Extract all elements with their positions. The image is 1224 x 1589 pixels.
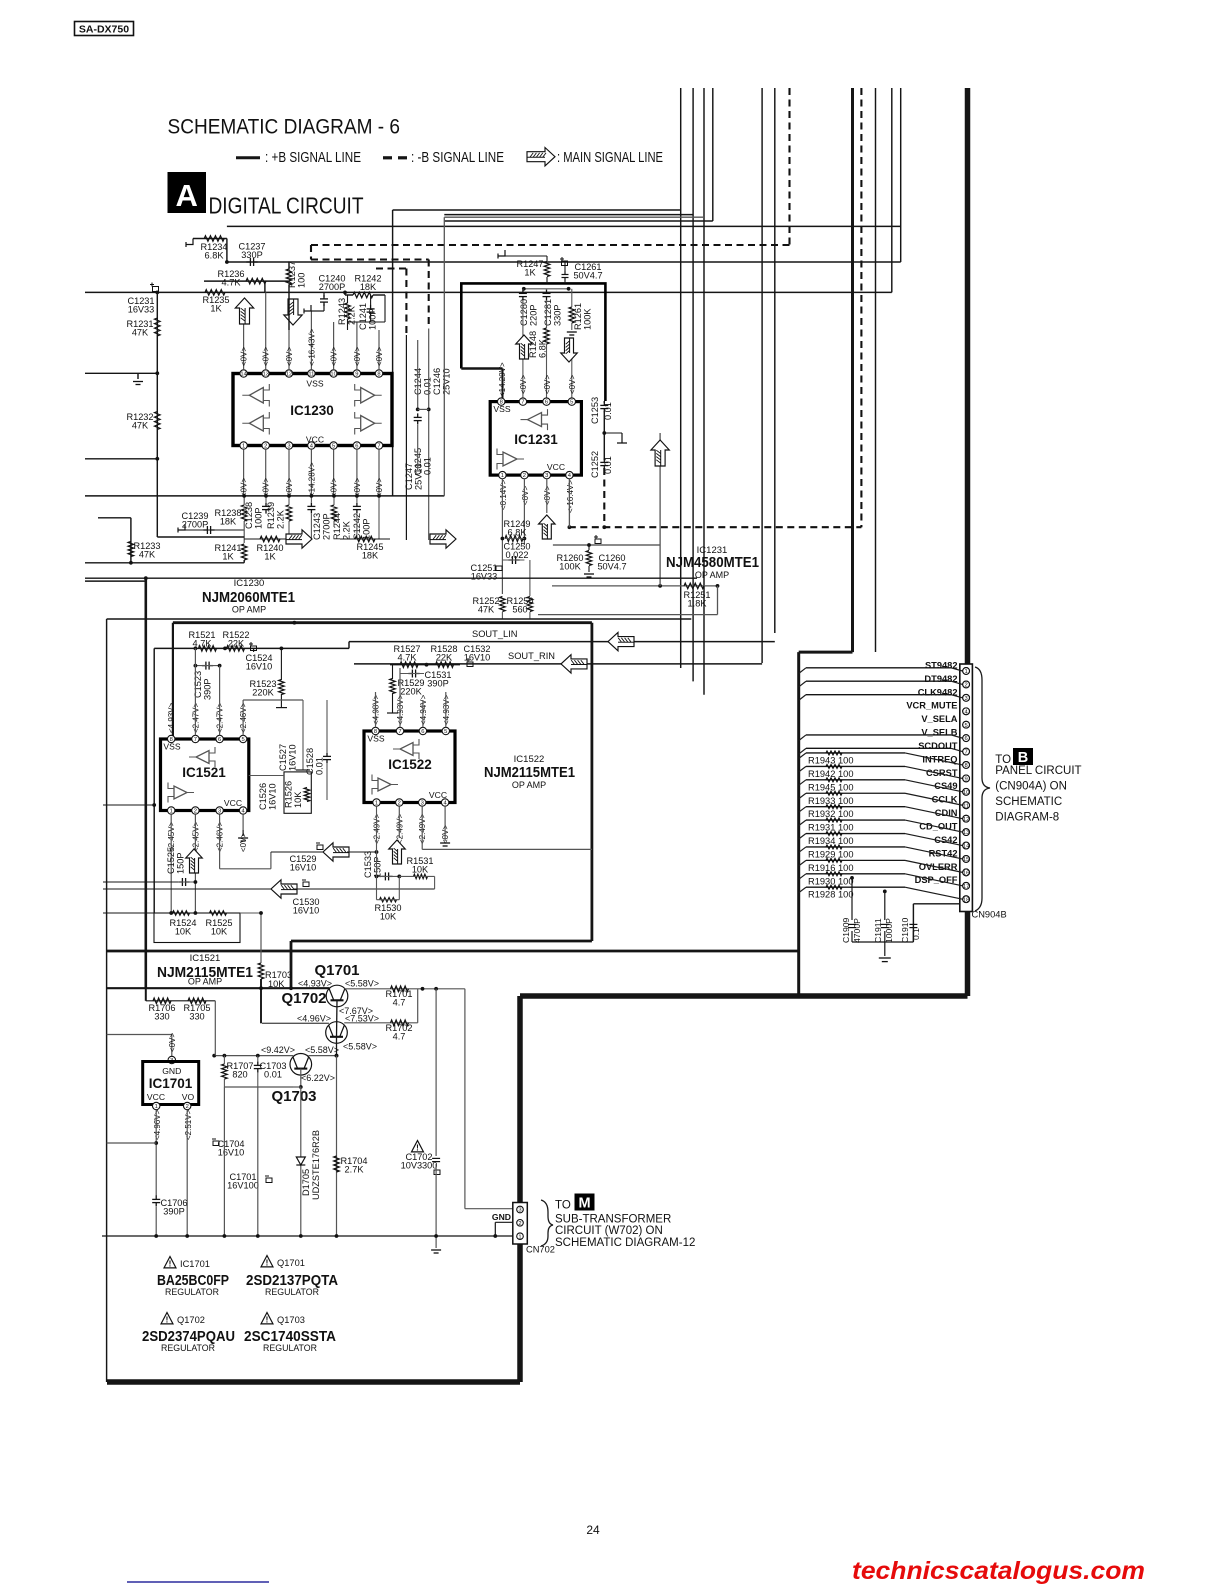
wire cap stub xyxy=(137,373,139,379)
pin 7 IC1230 xyxy=(375,442,382,449)
pin 14 IC1230 xyxy=(240,370,247,377)
op-amp IC1231 unit A xyxy=(528,413,542,427)
wire R1932 bus-jog xyxy=(799,807,806,813)
wire pin1 down chain xyxy=(376,806,378,900)
capacitor C1252 xyxy=(600,458,608,469)
wire bold drop right of label xyxy=(290,941,293,988)
wire R1243 leads b xyxy=(347,319,349,330)
resistor R1261 symbol xyxy=(569,307,575,323)
ground at R1234 xyxy=(186,239,193,248)
wire R1942 pin-jog xyxy=(905,766,963,778)
svg-text:REGULATOR: REGULATOR xyxy=(165,1287,219,1297)
resistor R1245 xyxy=(355,536,375,542)
wire caps cols c xyxy=(912,931,914,942)
capacitor C1529 polarity mark xyxy=(316,843,323,850)
svg-text:(CN904A) ON: (CN904A) ON xyxy=(995,781,1067,793)
svg-text:10: 10 xyxy=(963,790,969,796)
resistor R1233 xyxy=(128,542,134,557)
wire CN702 pin2 step xyxy=(494,1222,496,1236)
svg-text:1: 1 xyxy=(501,473,504,479)
resistor R1931 xyxy=(826,818,842,822)
svg-text:150P: 150P xyxy=(373,857,383,878)
wire Q1703 col down xyxy=(300,1087,302,1236)
svg-text:18K: 18K xyxy=(362,551,379,561)
wire C1909 col xyxy=(851,878,853,920)
capacitor C1524 polarity mark xyxy=(249,642,257,651)
junction tie left xyxy=(522,287,526,291)
wire CN904B pin7 pin-jog xyxy=(951,748,963,751)
svg-text:<0V>: <0V> xyxy=(521,486,530,505)
pin 10 IC1230 xyxy=(330,370,337,377)
wire VSS feed xyxy=(502,369,504,399)
wire pin3 lead xyxy=(171,1035,173,1059)
wire IC1521 pin1 down xyxy=(170,814,172,913)
wire R1928 pin-jog xyxy=(905,887,963,899)
pin 3 IC1521 xyxy=(216,807,223,814)
wire R1932 pin-jog xyxy=(905,807,963,819)
wire C1243 col b xyxy=(310,514,312,539)
op-amp IC1522 package box xyxy=(364,731,455,803)
svg-text:<0.14V>: <0.14V> xyxy=(499,479,508,510)
wire R1523 top xyxy=(280,648,282,680)
pin 7 CN904B xyxy=(963,748,970,755)
wire R1250 col xyxy=(529,560,531,596)
wire C1704 col xyxy=(223,1087,225,1236)
wire trunk 562 xyxy=(85,562,244,564)
wire R1942 row xyxy=(806,765,905,767)
wire R1706 row xyxy=(146,1000,216,1002)
pin 3 IC1522 xyxy=(419,799,426,806)
svg-text:2700P: 2700P xyxy=(319,282,346,292)
pin 13 IC1230 xyxy=(262,370,269,377)
junction 1055 c xyxy=(335,1054,339,1058)
footer blue underline xyxy=(127,1581,269,1583)
resistor R1933 xyxy=(826,791,842,795)
svg-text:C1253: C1253 xyxy=(590,397,600,424)
wire long horizontal 951 xyxy=(107,950,799,953)
svg-text:R1928 100: R1928 100 xyxy=(808,890,854,900)
svg-text:PANEL CIRCUIT: PANEL CIRCUIT xyxy=(995,765,1081,777)
svg-text:C1238: C1238 xyxy=(244,502,254,529)
svg-text:SCHEMATIC DIAGRAM-12: SCHEMATIC DIAGRAM-12 xyxy=(555,1237,695,1249)
legend main signal arrow xyxy=(527,148,555,166)
svg-text:7: 7 xyxy=(377,444,380,450)
svg-text:100: 100 xyxy=(297,273,307,288)
junction C1533 left xyxy=(375,875,379,879)
wire bus vertical a xyxy=(680,88,682,668)
wire R1930 pin-jog xyxy=(905,874,963,886)
main signal arrow left C1530 xyxy=(271,880,297,898)
junction link xyxy=(335,1054,339,1058)
junction C1231 xyxy=(155,291,159,295)
junction pin1 1143 xyxy=(154,1141,158,1145)
pin 4 IC1522 xyxy=(441,799,448,806)
wire row 1055 xyxy=(214,1055,293,1057)
svg-text:14: 14 xyxy=(963,844,970,850)
ground C1702 xyxy=(431,1250,441,1253)
svg-text:1.8K: 1.8K xyxy=(688,599,708,609)
wire row 805 xyxy=(103,804,154,806)
capacitor C1250 symbol xyxy=(508,556,519,564)
resistor R1239 symbol xyxy=(286,505,292,521)
svg-text:150P: 150P xyxy=(176,853,186,874)
pin 9 IC1230 xyxy=(353,370,360,377)
pin 13 CN904B xyxy=(963,829,970,836)
svg-text:!: ! xyxy=(266,1316,269,1325)
wire R1261 gnd lead xyxy=(571,323,573,330)
wire Q1701 down to Q1702 xyxy=(336,1000,339,1037)
svg-text:C1533: C1533 xyxy=(363,851,373,878)
wire IC1701 pin1 down xyxy=(155,1110,157,1196)
junction R1521 left xyxy=(194,647,198,651)
pin 17 CN904B xyxy=(963,882,970,889)
resistor R1234 xyxy=(204,236,224,242)
svg-text:SCHEMATIC DIAGRAM - 6: SCHEMATIC DIAGRAM - 6 xyxy=(168,116,401,139)
svg-text:<0V>: <0V> xyxy=(330,347,339,366)
wire R1521 row xyxy=(154,647,349,649)
svg-text:VCC: VCC xyxy=(547,462,565,472)
resistor R1932 xyxy=(826,805,842,809)
svg-text:16V100: 16V100 xyxy=(227,1181,259,1191)
ground R1260 xyxy=(584,574,594,577)
wire trunk h4 xyxy=(444,220,713,222)
wire C1527 end bar xyxy=(296,769,310,771)
svg-text:C1910: C1910 xyxy=(900,917,910,943)
pin 8 IC1231 xyxy=(498,398,505,405)
main signal arrow up at pin14 xyxy=(235,298,253,324)
legend -B line sample 2 xyxy=(398,156,407,159)
capacitor C1238 symbol xyxy=(262,502,270,513)
wire -B dashed branch vertical xyxy=(405,269,407,336)
svg-text:SUB-TRANSFORMER: SUB-TRANSFORMER xyxy=(555,1214,671,1226)
wire bus vertical e xyxy=(761,88,763,663)
resistor R1706 symbol xyxy=(153,998,171,1004)
svg-text:10V3300: 10V3300 xyxy=(401,1161,438,1171)
wire R1251 return xyxy=(538,614,718,616)
svg-text:1K: 1K xyxy=(222,552,234,562)
svg-text:2: 2 xyxy=(186,1104,189,1110)
main signal arrow down at pin12 xyxy=(284,299,302,325)
wire pin14 lead up xyxy=(243,324,245,370)
svg-text:IC1701: IC1701 xyxy=(149,1076,193,1091)
pin 3 IC1230 xyxy=(285,442,292,449)
wire bold mid box top xyxy=(173,621,592,624)
wire -B dashed vertical right xyxy=(860,88,862,527)
svg-text:C1280: C1280 xyxy=(519,299,529,326)
pin 10 CN904B xyxy=(963,788,970,795)
svg-text:<6.22V>: <6.22V> xyxy=(301,1073,335,1083)
svg-text:10K: 10K xyxy=(175,927,192,937)
svg-text:CN702: CN702 xyxy=(526,1245,555,1255)
wire C1703 leads b xyxy=(257,1072,259,1087)
wire pin10 lead up xyxy=(333,322,335,370)
wire -B dashed branch horizontal xyxy=(376,267,406,269)
wire R1934 pin-jog xyxy=(905,834,963,846)
wire C1237 feed xyxy=(226,239,228,263)
capacitor C1704 polarity mark xyxy=(212,1139,219,1146)
wire trunk h5 long xyxy=(227,225,901,227)
svg-text:<2.51V>: <2.51V> xyxy=(184,1109,193,1140)
pin 5 IC1231 xyxy=(568,398,575,405)
pin 3 CN904B xyxy=(963,694,970,701)
svg-text:5: 5 xyxy=(241,737,244,743)
wire R1706 corner xyxy=(145,988,147,1001)
wire R1929 bus-jog xyxy=(799,847,806,853)
capacitor C1531 symbol xyxy=(408,670,419,678)
resistor R1243 symbol xyxy=(345,303,351,319)
wire R1237 col b xyxy=(288,285,290,330)
wire C1911 col xyxy=(884,891,886,920)
capacitor C1261 symbol xyxy=(562,272,569,281)
wire R1933 row xyxy=(806,792,905,794)
svg-text:4.7: 4.7 xyxy=(393,998,406,1008)
pin 1 IC1230 xyxy=(240,442,247,449)
svg-text:9: 9 xyxy=(964,777,967,783)
svg-text:R1239: R1239 xyxy=(266,502,276,529)
wire bold bus vertical to bottom xyxy=(797,652,800,996)
wire pin7 col down xyxy=(378,497,380,539)
svg-text:4700P: 4700P xyxy=(852,918,862,943)
svg-text:<0V>: <0V> xyxy=(568,375,577,394)
junction R1701 a xyxy=(421,987,425,991)
wire -B dashed corner down xyxy=(310,245,312,260)
svg-text:1: 1 xyxy=(242,444,245,450)
wire pin13 lead up xyxy=(265,292,267,369)
pin 7 CN904B redraw xyxy=(963,748,970,755)
wire C1528 col xyxy=(326,700,328,752)
svg-text:10K: 10K xyxy=(211,927,228,937)
junction R1521/R1522 xyxy=(223,647,227,651)
svg-text:C1911: C1911 xyxy=(873,918,883,943)
svg-text:14: 14 xyxy=(240,372,247,378)
wire R1707 leads xyxy=(223,1056,225,1064)
wire C1531 row xyxy=(400,673,424,675)
pin 2 CN702 xyxy=(517,1220,524,1227)
svg-text:Q1701: Q1701 xyxy=(277,1258,305,1268)
wire R1933 pin-jog xyxy=(905,793,963,805)
wire emitter col down xyxy=(336,1056,338,1236)
svg-text:C1246: C1246 xyxy=(432,368,442,395)
main signal arrow right b xyxy=(430,530,456,548)
junction GND trunk 300.8 xyxy=(299,1234,303,1238)
junction GND trunk 436.1 xyxy=(434,1234,438,1238)
pin 1 IC1231 xyxy=(499,471,506,478)
legend -B line sample xyxy=(383,156,392,159)
svg-text:IC1231: IC1231 xyxy=(514,432,558,447)
svg-text:8: 8 xyxy=(170,737,173,743)
resistor R1934 xyxy=(826,832,842,836)
svg-text:C1526: C1526 xyxy=(258,783,268,810)
wire up arrow col xyxy=(659,433,661,586)
svg-text:<-16.4V>: <-16.4V> xyxy=(566,480,575,513)
wire right col upper xyxy=(603,401,605,403)
wire R1943 pin-jog xyxy=(905,753,963,765)
svg-text:2: 2 xyxy=(964,683,967,689)
transistor Q1701 xyxy=(326,985,348,1007)
wire R1702 row xyxy=(344,1022,418,1024)
wire C1703 leads xyxy=(257,1056,259,1062)
svg-text:<0V>: <0V> xyxy=(543,486,552,505)
svg-text:16V10: 16V10 xyxy=(288,744,298,771)
svg-text:REGULATOR: REGULATOR xyxy=(263,1343,317,1353)
wire R1701 row xyxy=(345,988,465,990)
capacitor C1523 symbol xyxy=(202,662,213,670)
svg-text:: -B SIGNAL LINE: : -B SIGNAL LINE xyxy=(411,150,504,166)
wire pin5 col xyxy=(571,350,573,398)
pin 3 CN702 xyxy=(517,1206,524,1213)
wire pin1 drop xyxy=(501,479,503,594)
wire C1242 col b xyxy=(356,514,358,539)
wire trunk h1 drop xyxy=(392,210,394,496)
wire R1527 row xyxy=(390,664,460,666)
wire R1237 col xyxy=(288,262,290,269)
main signal arrow left SOUT_RIN xyxy=(561,655,587,673)
wire C1247 col xyxy=(405,335,407,540)
svg-text:Q1703: Q1703 xyxy=(271,1088,316,1105)
wire -B dashed vertical mid xyxy=(428,260,430,329)
svg-text:<0V>: <0V> xyxy=(285,347,294,366)
svg-text:ST9482: ST9482 xyxy=(925,660,958,670)
junction 1055 d xyxy=(212,1054,216,1058)
svg-text:2700P: 2700P xyxy=(322,513,332,540)
wire R1931 pin-jog xyxy=(905,820,963,832)
wire pin18 horizontal xyxy=(913,903,960,905)
wire C1239 row xyxy=(185,529,244,531)
wire R1945 pin-jog xyxy=(905,780,963,792)
wire C1533 row xyxy=(377,875,400,877)
wire R1703 bottom xyxy=(260,979,262,1023)
pin 3 IC1701 xyxy=(168,1056,175,1063)
svg-text:GND: GND xyxy=(492,1212,511,1222)
pin 6 CN904B redraw xyxy=(963,735,970,742)
wire -B dashed trunk horizontal xyxy=(311,244,790,246)
pin 2 IC1231 xyxy=(521,471,528,478)
wire R1933 bus-jog xyxy=(799,793,806,799)
pin 6 CN904B xyxy=(963,735,970,742)
wire pin3 bend right xyxy=(220,868,271,870)
svg-text:VCC: VCC xyxy=(224,798,242,808)
junction R1703 top xyxy=(259,911,263,915)
pin 6 IC1522 xyxy=(419,727,426,734)
pin 10 CN904B redraw xyxy=(963,788,970,795)
svg-text:SCHEMATIC: SCHEMATIC xyxy=(995,796,1062,808)
connector CN702 body xyxy=(513,1203,528,1245)
wire R1242 drop xyxy=(384,295,386,322)
op-amp IC1230 unit C xyxy=(249,416,263,432)
pin 2 IC1230 xyxy=(262,442,269,449)
thick main power trunk vertical xyxy=(965,88,971,996)
pin 8 IC1230 xyxy=(375,370,382,377)
svg-text:VCC: VCC xyxy=(147,1092,165,1102)
svg-text:390P: 390P xyxy=(427,679,448,689)
pin 5 IC1522 xyxy=(442,727,449,734)
svg-text:C1523: C1523 xyxy=(193,671,203,698)
wire CN904B pin2 pin-jog xyxy=(951,681,963,684)
wire C1240 gnd row xyxy=(311,310,324,312)
junction bold top 294 xyxy=(293,621,297,625)
pin 17 CN904B redraw xyxy=(963,882,970,889)
junction col b xyxy=(427,408,431,412)
main signal arrow right a xyxy=(286,530,312,548)
wire C1241 leads xyxy=(370,295,372,305)
svg-text:16V10: 16V10 xyxy=(246,662,273,672)
svg-text:10K: 10K xyxy=(412,865,429,875)
resistor R1704 symbol xyxy=(334,1156,340,1172)
wire pin3 feedback right xyxy=(422,848,592,850)
svg-text:GND: GND xyxy=(162,1066,181,1076)
wire R1702 bend up xyxy=(417,989,419,1023)
wire bold VSS feed IC1521 xyxy=(172,623,174,736)
svg-text:R1526: R1526 xyxy=(284,781,294,808)
svg-text:<7.53V>: <7.53V> xyxy=(345,1014,379,1024)
wire IC1521 to R1526 box xyxy=(249,775,284,777)
resistor R1705 symbol xyxy=(188,998,206,1004)
junction tie right xyxy=(567,287,571,291)
wire CN904B pin3 xyxy=(806,694,951,696)
wire Q1702 emitter xyxy=(336,1037,338,1056)
wire IC1522 pin3 down xyxy=(421,806,423,849)
op-amp IC1231 package box xyxy=(490,402,581,476)
wire C1240 col b xyxy=(323,304,325,311)
main signal arrow up C1533 xyxy=(389,840,406,864)
pin 2 CN904B redraw xyxy=(963,681,970,688)
svg-text:2: 2 xyxy=(398,801,401,807)
svg-text:IC1522: IC1522 xyxy=(388,757,432,772)
wire R1928 bus-jog xyxy=(799,887,806,893)
pin 14 CN904B xyxy=(963,842,970,849)
pin 14 CN904B redraw xyxy=(963,842,970,849)
wire R1260 gnd xyxy=(588,566,590,572)
pin 15 CN904B xyxy=(963,856,970,863)
svg-text:R1261: R1261 xyxy=(573,303,583,330)
svg-text:6: 6 xyxy=(218,737,221,743)
wire C1527 col xyxy=(302,700,304,770)
junction bold 291/988 xyxy=(289,986,293,990)
svg-text:<0V>: <0V> xyxy=(262,347,271,366)
svg-text:0.022: 0.022 xyxy=(506,550,529,560)
svg-text:SA-DX750: SA-DX750 xyxy=(79,24,129,36)
svg-text:2: 2 xyxy=(194,809,197,815)
wire R1530 row xyxy=(377,899,400,901)
resistor R1232 xyxy=(155,412,161,430)
wire pin1 row tie xyxy=(107,1142,157,1144)
junction C1242 col xyxy=(355,494,359,498)
pin 9 CN904B redraw xyxy=(963,775,970,782)
wire R1934 row xyxy=(806,833,905,835)
svg-text:<0V>: <0V> xyxy=(240,347,249,366)
junction R1242 left xyxy=(343,291,347,295)
resistor R1942 xyxy=(826,765,842,769)
capacitor C1525 symbol xyxy=(178,878,189,886)
svg-text:9: 9 xyxy=(355,372,358,378)
svg-text:22K: 22K xyxy=(436,653,453,663)
wire pin7 col up xyxy=(522,289,524,290)
wire IC1522 pin6 up xyxy=(422,700,424,727)
svg-text:100P: 100P xyxy=(254,508,264,529)
junction R1234/C1237 xyxy=(225,260,229,264)
capacitor C1251 polarity mark xyxy=(496,566,502,571)
ground R1261 xyxy=(567,332,577,335)
resistor R1526 symbol xyxy=(304,788,310,802)
svg-text:0.01: 0.01 xyxy=(423,457,433,475)
svg-text:3: 3 xyxy=(421,801,424,807)
svg-text:<4.96V>: <4.96V> xyxy=(153,1109,162,1140)
svg-text:C1252: C1252 xyxy=(590,451,600,478)
wire C1243 col xyxy=(310,497,312,502)
resistor R1240 xyxy=(260,536,280,542)
wire IC1522 pin4 down xyxy=(444,806,446,841)
svg-text:18K: 18K xyxy=(360,282,377,292)
